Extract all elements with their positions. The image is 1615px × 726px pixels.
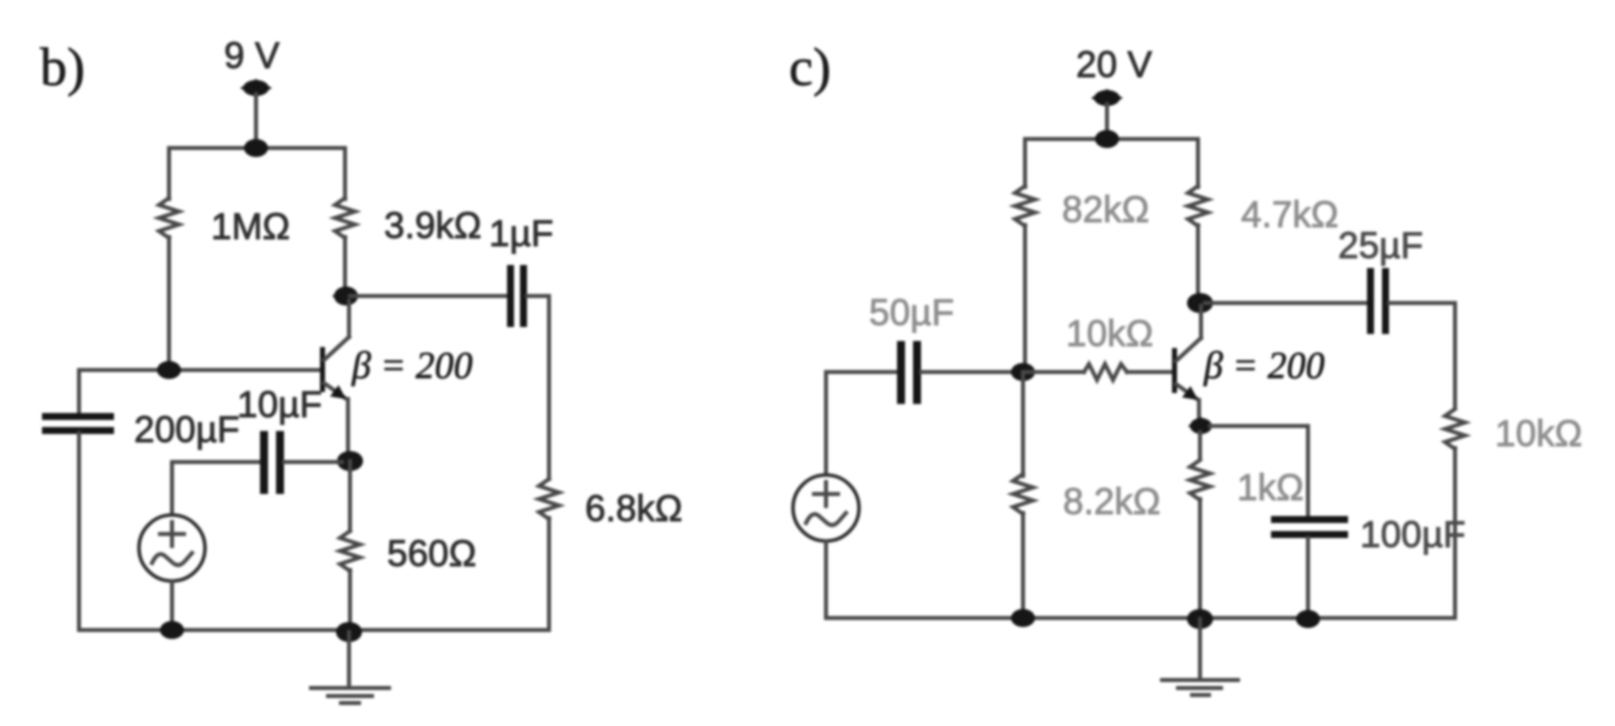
supply terminal diamond 20V — [1091, 89, 1123, 107]
wire 10uF right segment — [284, 460, 342, 464]
resistor R3 82k — [1015, 186, 1035, 226]
node bottom 8.2k c — [1011, 609, 1035, 627]
node bottom emitter c — [1187, 609, 1213, 629]
capacitor C1 200uF — [42, 413, 114, 420]
wire 8.2k to bottom rail — [1021, 513, 1025, 618]
wire input top c — [826, 372, 897, 474]
wire emitter to node b — [346, 399, 350, 455]
svg-text:β = 200: β = 200 — [351, 345, 473, 387]
wire cap to load corner — [527, 296, 549, 479]
node bottom source b — [160, 621, 184, 639]
node bottom emitter b — [336, 622, 362, 642]
wire node to base resistor — [1023, 370, 1084, 374]
capacitor C3 10uF — [260, 431, 268, 494]
wire emitter to node c — [1197, 400, 1201, 420]
wire load to bottom rail c — [1453, 448, 1457, 618]
wire RE2 to bottom rail — [1198, 499, 1202, 618]
wire load to bottom rail — [547, 518, 551, 630]
node bottom bypass c — [1296, 610, 1320, 628]
supply terminal diamond 9V — [240, 79, 272, 97]
wire bottom rail c — [826, 616, 1455, 620]
wire emitter node to resistor — [348, 461, 352, 531]
svg-text:b): b) — [40, 37, 85, 97]
resistor RE 560 — [340, 531, 360, 571]
capacitor C4 50uF — [897, 341, 905, 404]
svg-text:200µF: 200µF — [134, 409, 240, 450]
svg-text:1MΩ: 1MΩ — [211, 206, 290, 247]
svg-text:1kΩ: 1kΩ — [1237, 467, 1304, 508]
wire 10uF left segment — [172, 460, 260, 464]
wire bottom rail b — [79, 628, 549, 632]
transistor Q2 — [1172, 348, 1177, 393]
wire source bottom c — [824, 541, 828, 618]
wire supply to top rail — [254, 94, 258, 148]
node input c — [1011, 363, 1035, 381]
svg-text:c): c) — [789, 37, 831, 97]
wire left branch lower b — [167, 237, 171, 370]
node collector c — [1187, 293, 1213, 313]
node top rail b — [244, 139, 268, 157]
wire emitter node down to RE2 — [1198, 432, 1202, 459]
wire base b — [79, 368, 322, 372]
wire 50uF to base node — [921, 370, 1023, 374]
transistor Q1 — [320, 347, 325, 392]
wire emitter resistor to bottom rail — [348, 570, 352, 630]
svg-text:50µF: 50µF — [869, 292, 954, 333]
svg-text:3.9kΩ: 3.9kΩ — [384, 205, 482, 246]
wire base resistor to transistor — [1127, 370, 1172, 374]
resistor R2 3.9k — [335, 198, 355, 238]
svg-text:6.8kΩ: 6.8kΩ — [585, 488, 683, 529]
wire right branch lower c — [1196, 225, 1200, 298]
node base b — [157, 361, 181, 379]
resistor R1 1M — [159, 198, 179, 238]
source V1 AC — [139, 515, 205, 581]
resistor R4 4.7k — [1188, 186, 1208, 226]
svg-text:10kΩ: 10kΩ — [1066, 313, 1153, 354]
svg-text:100µF: 100µF — [1360, 514, 1466, 555]
wire left branch upper b — [167, 148, 171, 199]
wire right branch upper b — [343, 148, 347, 199]
svg-text:10kΩ: 10kΩ — [1495, 413, 1582, 454]
resistor R6 8.2k — [1013, 474, 1033, 514]
wire source top b — [170, 462, 174, 514]
wire top rail c — [1025, 137, 1198, 141]
wire emitter node to bypass corner — [1210, 426, 1308, 518]
svg-text:β = 200: β = 200 — [1203, 345, 1325, 387]
svg-text:25µF: 25µF — [1338, 225, 1423, 266]
svg-text:9 V: 9 V — [224, 35, 280, 76]
wire 100uF to bottom rail — [1306, 538, 1310, 618]
wire cap to load corner c — [1389, 303, 1455, 408]
svg-text:8.2kΩ: 8.2kΩ — [1063, 481, 1161, 522]
node top rail c — [1095, 130, 1119, 148]
wire collector to output cap c — [1205, 301, 1367, 305]
ground c — [1198, 619, 1202, 679]
wire collector to output cap — [350, 294, 507, 298]
wire source bottom b — [170, 581, 174, 630]
wire input left vertical upper — [77, 370, 81, 414]
resistor RL 6.8k — [539, 479, 559, 519]
svg-text:20 V: 20 V — [1076, 44, 1152, 85]
wire supply to top rail c — [1105, 104, 1109, 139]
wire top rail b — [169, 146, 345, 150]
wire right branch lower b — [343, 237, 347, 292]
source V2 AC — [793, 475, 859, 541]
node emitter b — [337, 451, 363, 471]
resistor RL2 10k — [1445, 409, 1465, 449]
resistor RE2 1k — [1190, 460, 1210, 500]
svg-text:4.7kΩ: 4.7kΩ — [1241, 194, 1339, 235]
wire input node down to 8.2k — [1021, 372, 1025, 476]
wire left branch lower c — [1023, 225, 1027, 372]
svg-text:82kΩ: 82kΩ — [1062, 189, 1149, 230]
node collector b — [332, 287, 360, 306]
capacitor C6 25uF — [1367, 268, 1374, 334]
resistor R5 10k horizontal — [1084, 364, 1127, 380]
ground b — [347, 632, 351, 687]
capacitor C2 1uF — [507, 265, 514, 327]
wire left branch upper c — [1023, 139, 1027, 187]
node emitter c diamond — [1188, 417, 1214, 435]
wire input left vertical lower — [77, 433, 81, 630]
wire right branch upper c — [1196, 139, 1200, 187]
svg-text:10µF: 10µF — [237, 384, 322, 425]
svg-text:1µF: 1µF — [489, 213, 554, 254]
capacitor C5 100uF — [1271, 516, 1348, 523]
svg-text:560Ω: 560Ω — [387, 533, 476, 574]
